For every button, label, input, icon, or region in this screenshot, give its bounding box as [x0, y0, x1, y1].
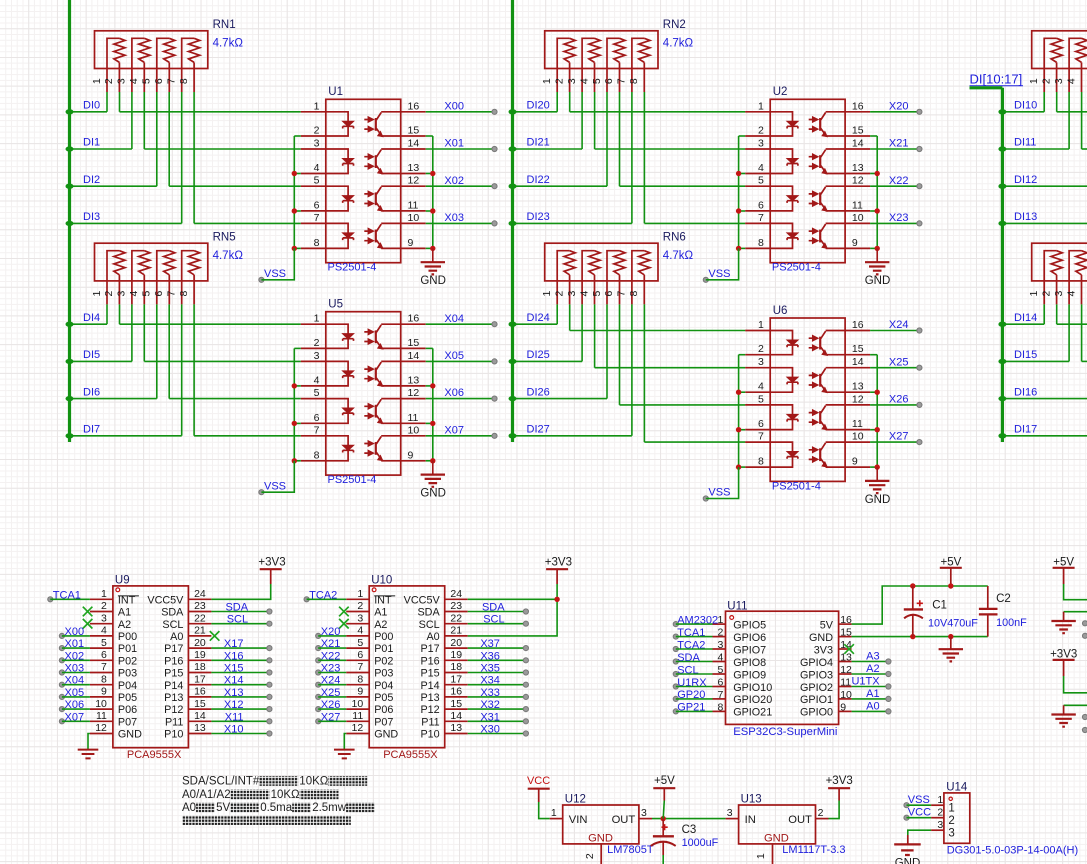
svg-text:6: 6	[153, 291, 165, 297]
wire RN5 pin 5 down	[156, 304, 158, 398]
net label X01	[59, 638, 84, 651]
svg-text:PCA9555X: PCA9555X	[127, 749, 182, 761]
wire output X20	[870, 111, 919, 113]
svg-text:7: 7	[616, 78, 628, 84]
net label SDA (U11)	[673, 652, 700, 664]
svg-text:U1TX: U1TX	[851, 676, 880, 688]
svg-text:P03: P03	[118, 668, 137, 680]
bus junction DI1	[66, 146, 74, 151]
wire U1TX (U11)	[852, 686, 889, 688]
svg-text:1000uF: 1000uF	[682, 837, 719, 849]
svg-text:PS2501-4: PS2501-4	[328, 474, 377, 486]
wire U13 pin 2 to +3V3	[829, 801, 840, 819]
svg-text:3: 3	[937, 819, 943, 831]
wire +3V3 to U10 pin 24 and A0	[468, 584, 557, 636]
svg-text:GPIO2: GPIO2	[800, 682, 833, 694]
net label X25	[316, 687, 341, 700]
svg-text:X23: X23	[889, 212, 909, 224]
svg-text:5: 5	[141, 78, 153, 84]
svg-text:3V3: 3V3	[814, 644, 833, 656]
svg-text:RN2: RN2	[663, 19, 686, 31]
bus junction DI27	[509, 433, 517, 438]
wire end dot X05	[492, 359, 497, 364]
wire DI6 from bus to RN5	[70, 398, 157, 400]
bus junction DI11	[998, 146, 1006, 151]
junction dot +5V/C3 node	[661, 816, 666, 821]
svg-text:GND: GND	[118, 729, 142, 741]
no-connect X U9 A1	[83, 607, 93, 617]
svg-text:DI20: DI20	[527, 100, 550, 112]
svg-text:5: 5	[101, 637, 107, 649]
svg-text:GND: GND	[588, 832, 613, 844]
svg-text:1: 1	[541, 78, 553, 84]
wire X25 to U10	[318, 696, 346, 698]
svg-text:2: 2	[103, 78, 115, 84]
wire ground rail (right lower)	[1064, 704, 1087, 706]
svg-text:DG301-5.0-03P-14-00A(H): DG301-5.0-03P-14-00A(H)	[947, 844, 1078, 856]
svg-text:SDA: SDA	[417, 607, 440, 619]
net label X26	[316, 699, 341, 712]
svg-text:6: 6	[101, 649, 107, 661]
svg-text:P14: P14	[164, 680, 183, 692]
wire GP20 to U11 pin 7	[676, 698, 713, 700]
svg-text:DI4: DI4	[83, 312, 100, 324]
junction dots U1 left tie	[292, 171, 297, 251]
wire X14 (U9)	[211, 684, 269, 686]
regulator U13 body	[739, 805, 816, 844]
svg-text:1: 1	[937, 794, 943, 806]
svg-text:U14: U14	[946, 781, 968, 793]
bus junction DI24	[509, 322, 517, 327]
svg-text:7: 7	[166, 78, 178, 84]
bus junction DI17	[998, 433, 1006, 438]
svg-text:1: 1	[91, 291, 103, 297]
svg-text:VSS: VSS	[708, 487, 730, 499]
svg-text:16: 16	[450, 686, 462, 698]
U10 pin 1 marker ring	[372, 588, 376, 592]
net label TCA1	[48, 589, 81, 602]
svg-text:A3: A3	[866, 651, 879, 663]
U10 pin names	[374, 594, 440, 740]
resistor network RN5	[95, 243, 208, 304]
svg-text:GPIO20: GPIO20	[733, 694, 772, 706]
U13 pin stubs and numbers	[726, 807, 829, 864]
svg-text:U10: U10	[371, 575, 392, 587]
svg-text:P02: P02	[118, 655, 137, 667]
wire X27 to U10	[318, 720, 346, 722]
bus junction DI14	[998, 322, 1006, 327]
svg-text:1: 1	[1028, 78, 1040, 84]
svg-text:GPIO3: GPIO3	[800, 669, 833, 681]
resistor network RN2	[545, 31, 658, 92]
wire output X04	[426, 323, 495, 325]
svg-text:P15: P15	[420, 668, 439, 680]
svg-text:23: 23	[194, 600, 206, 612]
svg-text:X26: X26	[889, 394, 909, 406]
wire SDA (U9)	[211, 611, 269, 613]
svg-text:X37: X37	[480, 638, 500, 650]
svg-text:GND: GND	[865, 494, 891, 506]
junction dots U2 right tie	[875, 171, 880, 251]
svg-text:GPIO6: GPIO6	[733, 632, 766, 644]
wire X15 (U9)	[211, 672, 269, 674]
svg-text:12: 12	[352, 722, 364, 734]
bus junction DI22	[509, 184, 517, 189]
svg-text:GPIO7: GPIO7	[733, 644, 766, 656]
svg-text:3: 3	[718, 639, 724, 651]
ground (right lower)	[1051, 705, 1075, 726]
svg-text:2: 2	[937, 807, 943, 819]
wire output X06	[426, 398, 495, 400]
wire DI4 from bus to RN5	[70, 323, 108, 325]
svg-text:DI25: DI25	[527, 349, 550, 361]
svg-text:5: 5	[141, 291, 153, 297]
svg-text:P00: P00	[118, 631, 137, 643]
svg-text:2: 2	[948, 815, 954, 827]
wire +5V to right edge	[1064, 584, 1087, 600]
wire VSS to U1 pin 8	[261, 248, 294, 279]
wire DI16 from bus to edge	[1002, 398, 1087, 400]
svg-text:U9: U9	[115, 575, 130, 587]
U11 pin names	[733, 619, 834, 718]
wire DI7 from bus to RN5	[70, 435, 182, 437]
svg-text:OUT: OUT	[788, 814, 812, 826]
svg-text:P06: P06	[374, 704, 393, 716]
svg-text:8: 8	[718, 701, 724, 713]
wire RN5 pin 2 to U5 pin 1	[119, 304, 121, 324]
wire RN pin 1 down	[1043, 92, 1045, 112]
svg-text:6: 6	[603, 291, 615, 297]
svg-text:X27: X27	[889, 431, 909, 443]
wire RN5 pin 1 down	[106, 304, 108, 324]
svg-text:5V: 5V	[820, 619, 834, 631]
wire ground rail (right upper)	[1064, 611, 1087, 613]
net label X07	[59, 711, 84, 724]
svg-text:SCL: SCL	[419, 619, 440, 631]
wire end dot X37	[523, 646, 528, 651]
bus junction DI23	[509, 221, 517, 226]
wire RN pin 1 down	[1043, 304, 1045, 324]
wire RN2 pin 2 to U2 pin 1	[569, 92, 571, 112]
svg-text:PS2501-4: PS2501-4	[772, 262, 821, 274]
wire RN pin 4 to edge	[1081, 92, 1083, 149]
svg-text:14: 14	[194, 710, 206, 722]
svg-text:X10: X10	[224, 724, 244, 736]
wire end dots (right upper)	[1082, 621, 1087, 639]
wire X20 to U10	[318, 635, 346, 637]
svg-text:VCC5V: VCC5V	[147, 594, 184, 606]
wire X07 to U9	[62, 720, 90, 722]
net label X23	[316, 663, 341, 676]
svg-text:100nF: 100nF	[996, 617, 1027, 629]
wire X16 (U9)	[211, 659, 269, 661]
svg-text:17: 17	[450, 673, 462, 685]
svg-text:1: 1	[101, 588, 107, 600]
wire end dot X10	[267, 731, 272, 736]
svg-text:GPIO0: GPIO0	[800, 707, 833, 719]
wire end dot A3 (U11)	[886, 659, 891, 664]
wire VSS to U2 pin 8	[706, 248, 739, 279]
wire X24 to U10	[318, 684, 346, 686]
wire DI24 from bus to RN6	[513, 323, 558, 325]
svg-text:+3V3: +3V3	[258, 557, 285, 569]
svg-text:GPIO5: GPIO5	[733, 619, 766, 631]
bus junction DI4	[66, 322, 74, 327]
power +5V (right)	[1053, 557, 1075, 585]
svg-text:X12: X12	[224, 699, 244, 711]
svg-text:12: 12	[840, 664, 852, 676]
no-connect X U9 A2	[83, 619, 93, 629]
wire TCA2 to U11 pin 3	[676, 648, 713, 650]
U10 pin numbers	[352, 588, 463, 734]
wire X05 to U9	[62, 696, 90, 698]
svg-text:X24: X24	[889, 319, 909, 331]
wire output X03	[426, 222, 495, 224]
svg-text:P07: P07	[374, 716, 393, 728]
svg-text:23: 23	[450, 600, 462, 612]
U12 pin stubs and numbers	[550, 807, 652, 864]
wire RN1 pin 8 to U1 pin 7	[193, 92, 195, 223]
RN5 pin numbers 1-8	[91, 291, 190, 297]
wire X37 (U10)	[468, 647, 526, 649]
svg-text:+5V: +5V	[654, 775, 675, 787]
svg-text:3: 3	[116, 291, 128, 297]
svg-text:A2: A2	[374, 619, 387, 631]
resistor network RN6	[545, 243, 658, 304]
wire U12 output to U13 input	[652, 818, 726, 820]
svg-text:DI16: DI16	[1014, 386, 1037, 398]
wire end dots (right lower)	[1082, 714, 1087, 732]
wire VSS to U6 pin 8	[706, 467, 739, 498]
RN3 pin numbers 1-8	[1028, 78, 1077, 84]
wire X10 (U9)	[211, 733, 269, 735]
junction dot +5V rail	[948, 583, 953, 588]
svg-text:GND: GND	[420, 275, 446, 287]
wire X32 (U10)	[468, 708, 526, 710]
svg-text:P01: P01	[374, 643, 393, 655]
wire RN1 pin 1 down	[106, 92, 108, 112]
svg-text:1: 1	[948, 802, 954, 814]
svg-text:2: 2	[554, 291, 566, 297]
svg-text:6: 6	[357, 649, 363, 661]
svg-text:RN1: RN1	[213, 19, 236, 31]
svg-text:16: 16	[840, 614, 852, 626]
svg-text:X36: X36	[480, 650, 500, 662]
net label X05	[59, 687, 84, 700]
wire output X05	[426, 360, 495, 362]
wire end dot SCL (U9)	[267, 621, 272, 626]
wire X12 (U9)	[211, 708, 269, 710]
wire RN5 pin 4 to U5 pin 3	[143, 304, 145, 361]
svg-text:SCL: SCL	[162, 619, 183, 631]
wire RN5 pin 8 to U5 pin 7	[193, 304, 195, 435]
U11 pin numbers	[718, 614, 852, 713]
svg-text:GPIO21: GPIO21	[733, 707, 772, 719]
connector U14 body	[944, 793, 970, 843]
svg-text:DI[10:17]: DI[10:17]	[970, 72, 1023, 87]
wire end dot A2 (U11)	[886, 671, 891, 676]
wire end dot X27	[917, 440, 922, 445]
bus junction DI16	[998, 396, 1006, 401]
wire TCA1 to U11 pin 2	[676, 636, 713, 638]
wire end dot X20	[917, 109, 922, 114]
junction dots U6 right tie	[875, 390, 880, 470]
power VCC (U12 input)	[527, 775, 550, 802]
svg-text:X33: X33	[480, 687, 500, 699]
svg-text:OUT: OUT	[612, 814, 636, 826]
svg-text:7: 7	[718, 689, 724, 701]
svg-text:1: 1	[718, 614, 724, 626]
svg-text:X06: X06	[444, 387, 464, 399]
svg-text:SDA: SDA	[161, 607, 184, 619]
junction dot C1 top	[910, 583, 915, 588]
wire end dot X33	[523, 694, 528, 699]
svg-text:PS2501-4: PS2501-4	[328, 262, 377, 274]
wire DI20 from bus to RN2	[513, 111, 558, 113]
svg-text:22: 22	[450, 612, 462, 624]
U10 pin stubs	[346, 599, 468, 733]
wire U2 emitter tie (pins 15,13,11,9)	[870, 136, 877, 248]
svg-text:GND: GND	[420, 488, 446, 500]
junction dots U5 left tie	[292, 383, 297, 463]
wire RN5 pin 7 down	[181, 304, 183, 435]
wire end dot X31	[523, 719, 528, 724]
svg-text:1: 1	[91, 78, 103, 84]
wire RN6 pin 1 down	[556, 304, 558, 324]
wire end dot X15	[267, 670, 272, 675]
wire RN2 pin 6 to U2 pin 5	[619, 92, 621, 186]
wire end dot X13	[267, 694, 272, 699]
RN6 pin numbers 1-8	[541, 291, 640, 297]
resistor network RN3 (partial)	[1032, 31, 1087, 92]
wire RN6 pin 6 to U6 pin 5	[619, 304, 621, 405]
svg-text:9: 9	[357, 686, 363, 698]
svg-text:C1: C1	[932, 600, 947, 612]
svg-text:5: 5	[591, 291, 603, 297]
svg-text:9: 9	[101, 686, 107, 698]
svg-text:13: 13	[450, 722, 462, 734]
wire VCC to U14 pin 2	[907, 817, 932, 819]
wire SCL (U9)	[211, 623, 269, 625]
net label VSS (U2)	[703, 268, 730, 282]
bus junction DI10	[998, 109, 1006, 114]
junction dot C1 bottom	[910, 634, 915, 639]
wire DI22 from bus to RN2	[513, 185, 608, 187]
wire output X00	[426, 111, 495, 113]
svg-text:X34: X34	[480, 675, 500, 687]
svg-text:DI14: DI14	[1014, 312, 1037, 324]
optocoupler U5	[301, 312, 426, 475]
svg-text:4: 4	[101, 625, 107, 637]
bus junction DI5	[66, 359, 74, 364]
wire X03 to U9	[62, 672, 90, 674]
svg-text:P13: P13	[164, 692, 183, 704]
power +3V3 (U9)	[258, 557, 285, 585]
svg-text:X01: X01	[444, 138, 464, 150]
svg-text:4.7kΩ: 4.7kΩ	[663, 250, 694, 262]
wire X30 (U10)	[468, 733, 526, 735]
wire A1 (U11)	[852, 698, 889, 700]
svg-text:ESP32C3-SuperMini: ESP32C3-SuperMini	[733, 726, 837, 738]
junction dot GND stem	[948, 634, 953, 639]
svg-text:P16: P16	[164, 655, 183, 667]
RN1 pin numbers 1-8	[91, 78, 190, 84]
wire X36 (U10)	[468, 659, 526, 661]
svg-text:15: 15	[840, 627, 852, 639]
bus DI[0:7] (column 1)	[68, 0, 71, 442]
svg-text:15: 15	[450, 698, 462, 710]
svg-text:X32: X32	[480, 699, 500, 711]
svg-text:DI26: DI26	[527, 386, 550, 398]
svg-text:2: 2	[1041, 291, 1053, 297]
svg-text:DI22: DI22	[527, 174, 550, 186]
svg-text:+3V3: +3V3	[545, 557, 572, 569]
net label GP21 (U11)	[673, 702, 705, 714]
svg-text:GND: GND	[374, 729, 398, 741]
U9 pin 1 marker ring	[116, 588, 120, 592]
wire GP21 to U11 pin 8	[676, 710, 713, 712]
wire DI26 from bus to RN6	[513, 398, 608, 400]
svg-text:DI13: DI13	[1014, 211, 1037, 223]
svg-text:X15: X15	[224, 663, 244, 675]
svg-text:DI12: DI12	[1014, 174, 1037, 186]
wire RN pin 2 to edge	[1056, 92, 1058, 112]
svg-text:PS2501-4: PS2501-4	[772, 480, 821, 492]
svg-text:7: 7	[101, 661, 107, 673]
ground U6	[865, 467, 891, 506]
svg-text:10: 10	[95, 698, 107, 710]
svg-text:20: 20	[450, 637, 462, 649]
svg-text:11: 11	[96, 710, 107, 722]
ground U1	[420, 248, 446, 287]
svg-text:4: 4	[718, 652, 724, 664]
svg-text:X17: X17	[224, 638, 244, 650]
net label VSS (U6)	[703, 487, 730, 501]
wire end dot X32	[523, 707, 528, 712]
mcu U11 body	[726, 611, 839, 724]
wire U14 pin 3 to ground	[908, 830, 931, 835]
svg-text:A0: A0	[170, 631, 183, 643]
wire VSS to U5 pin 8	[261, 461, 294, 492]
svg-text:A0/A1/A2: A0/A1/A2	[182, 789, 231, 801]
wire output X21	[870, 148, 919, 150]
svg-text:19: 19	[194, 649, 206, 661]
svg-text:A1: A1	[374, 607, 387, 619]
wire end dot X02	[492, 184, 497, 189]
wire end dot A1 (U11)	[886, 696, 891, 701]
wire SDA to U11 pin 4	[676, 661, 713, 663]
svg-text:2: 2	[554, 78, 566, 84]
wire DI27 from bus to RN6	[513, 435, 632, 437]
bus entry label DI[10:17]	[970, 72, 1024, 87]
wire DI17 from bus to edge	[1002, 435, 1087, 437]
svg-text:3: 3	[357, 612, 363, 624]
svg-text:24: 24	[194, 588, 206, 600]
wire X35 (U10)	[468, 672, 526, 674]
wire end dot X06	[492, 396, 497, 401]
bus junction DI6	[66, 396, 74, 401]
bus DI[20:27] (column 2)	[511, 0, 514, 442]
svg-text:GND: GND	[809, 632, 833, 644]
svg-text:3: 3	[1053, 78, 1065, 84]
wire X13 (U9)	[211, 696, 269, 698]
wire TCA2 to U10 pin 1	[307, 598, 347, 600]
wire end dot X07	[492, 433, 497, 438]
svg-text:LM1117T-3.3: LM1117T-3.3	[782, 844, 845, 856]
U12 pin names	[569, 814, 636, 844]
svg-text:P01: P01	[118, 643, 137, 655]
wire X04 to U9	[62, 684, 90, 686]
